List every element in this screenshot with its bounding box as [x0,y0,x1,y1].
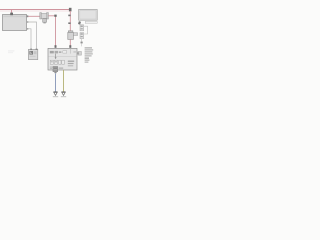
ECU inner box top [63,51,67,53]
legend text block [85,47,92,48]
wire red valve to ECU [69,39,71,47]
ECU bottom connector [53,67,58,72]
ECU tiny text left [50,66,53,69]
ECU text rows [68,61,74,62]
ECU relay band segment 2 [55,51,58,54]
pin into ECU left [55,45,57,48]
ground symbol right [61,91,65,93]
power bus [0,9,71,11]
inline connector tick 2 [68,22,70,24]
ground wire blue [55,73,57,92]
chain drop wire [81,39,83,42]
faint left label [8,50,14,51]
right chain component 2 [80,33,84,39]
top-right box [79,9,98,20]
ECU inner mid rule [48,56,76,58]
pin on top of left module [10,13,13,16]
label tick left of comp2 [76,33,77,35]
label near connector [59,68,64,69]
wire stub loop right [84,26,88,34]
wire red bus drop right [69,11,71,32]
suppressor body [40,13,42,19]
ground wire olive [63,70,65,92]
ground symbol left [53,91,57,93]
chain mid mark [81,42,83,44]
small module below gray wires [28,49,37,59]
ECU relay band marks [59,51,62,53]
wire red feed to suppressor [27,15,41,17]
ECU central box [48,48,77,70]
ECU inner right trace [69,49,71,54]
suppressor bracket [43,19,47,22]
ECU relay band segment 1 [50,51,54,54]
strip under box [85,21,97,23]
inline connector tick 1 [68,15,70,17]
wire bus drop to left module [11,10,13,15]
ECU sub box 4 [62,60,65,64]
ECU sub box 1 [50,60,53,64]
corner connector mark [54,15,56,17]
wire red suppressor to ECU [48,16,55,48]
left module K1 [3,15,27,31]
pin mark bottom-left of box [78,21,81,25]
ECU inner mark right [73,51,76,53]
ECU sub box 2 [54,60,57,64]
bus junction connector [69,8,72,12]
wire gray B [27,29,32,50]
chain tail wire [81,43,83,46]
pin tick red wire [27,15,29,17]
pin tick gray B [27,28,29,30]
right chain component 1 [80,25,84,31]
ECU arrow line [55,54,57,58]
inline valve V1 [68,31,73,33]
pin into ECU right [69,45,71,48]
wire gray A [27,22,37,50]
ECU sub box 3 [59,60,61,64]
ECU right stub lug [78,52,81,56]
pin tick gray A [27,21,29,23]
